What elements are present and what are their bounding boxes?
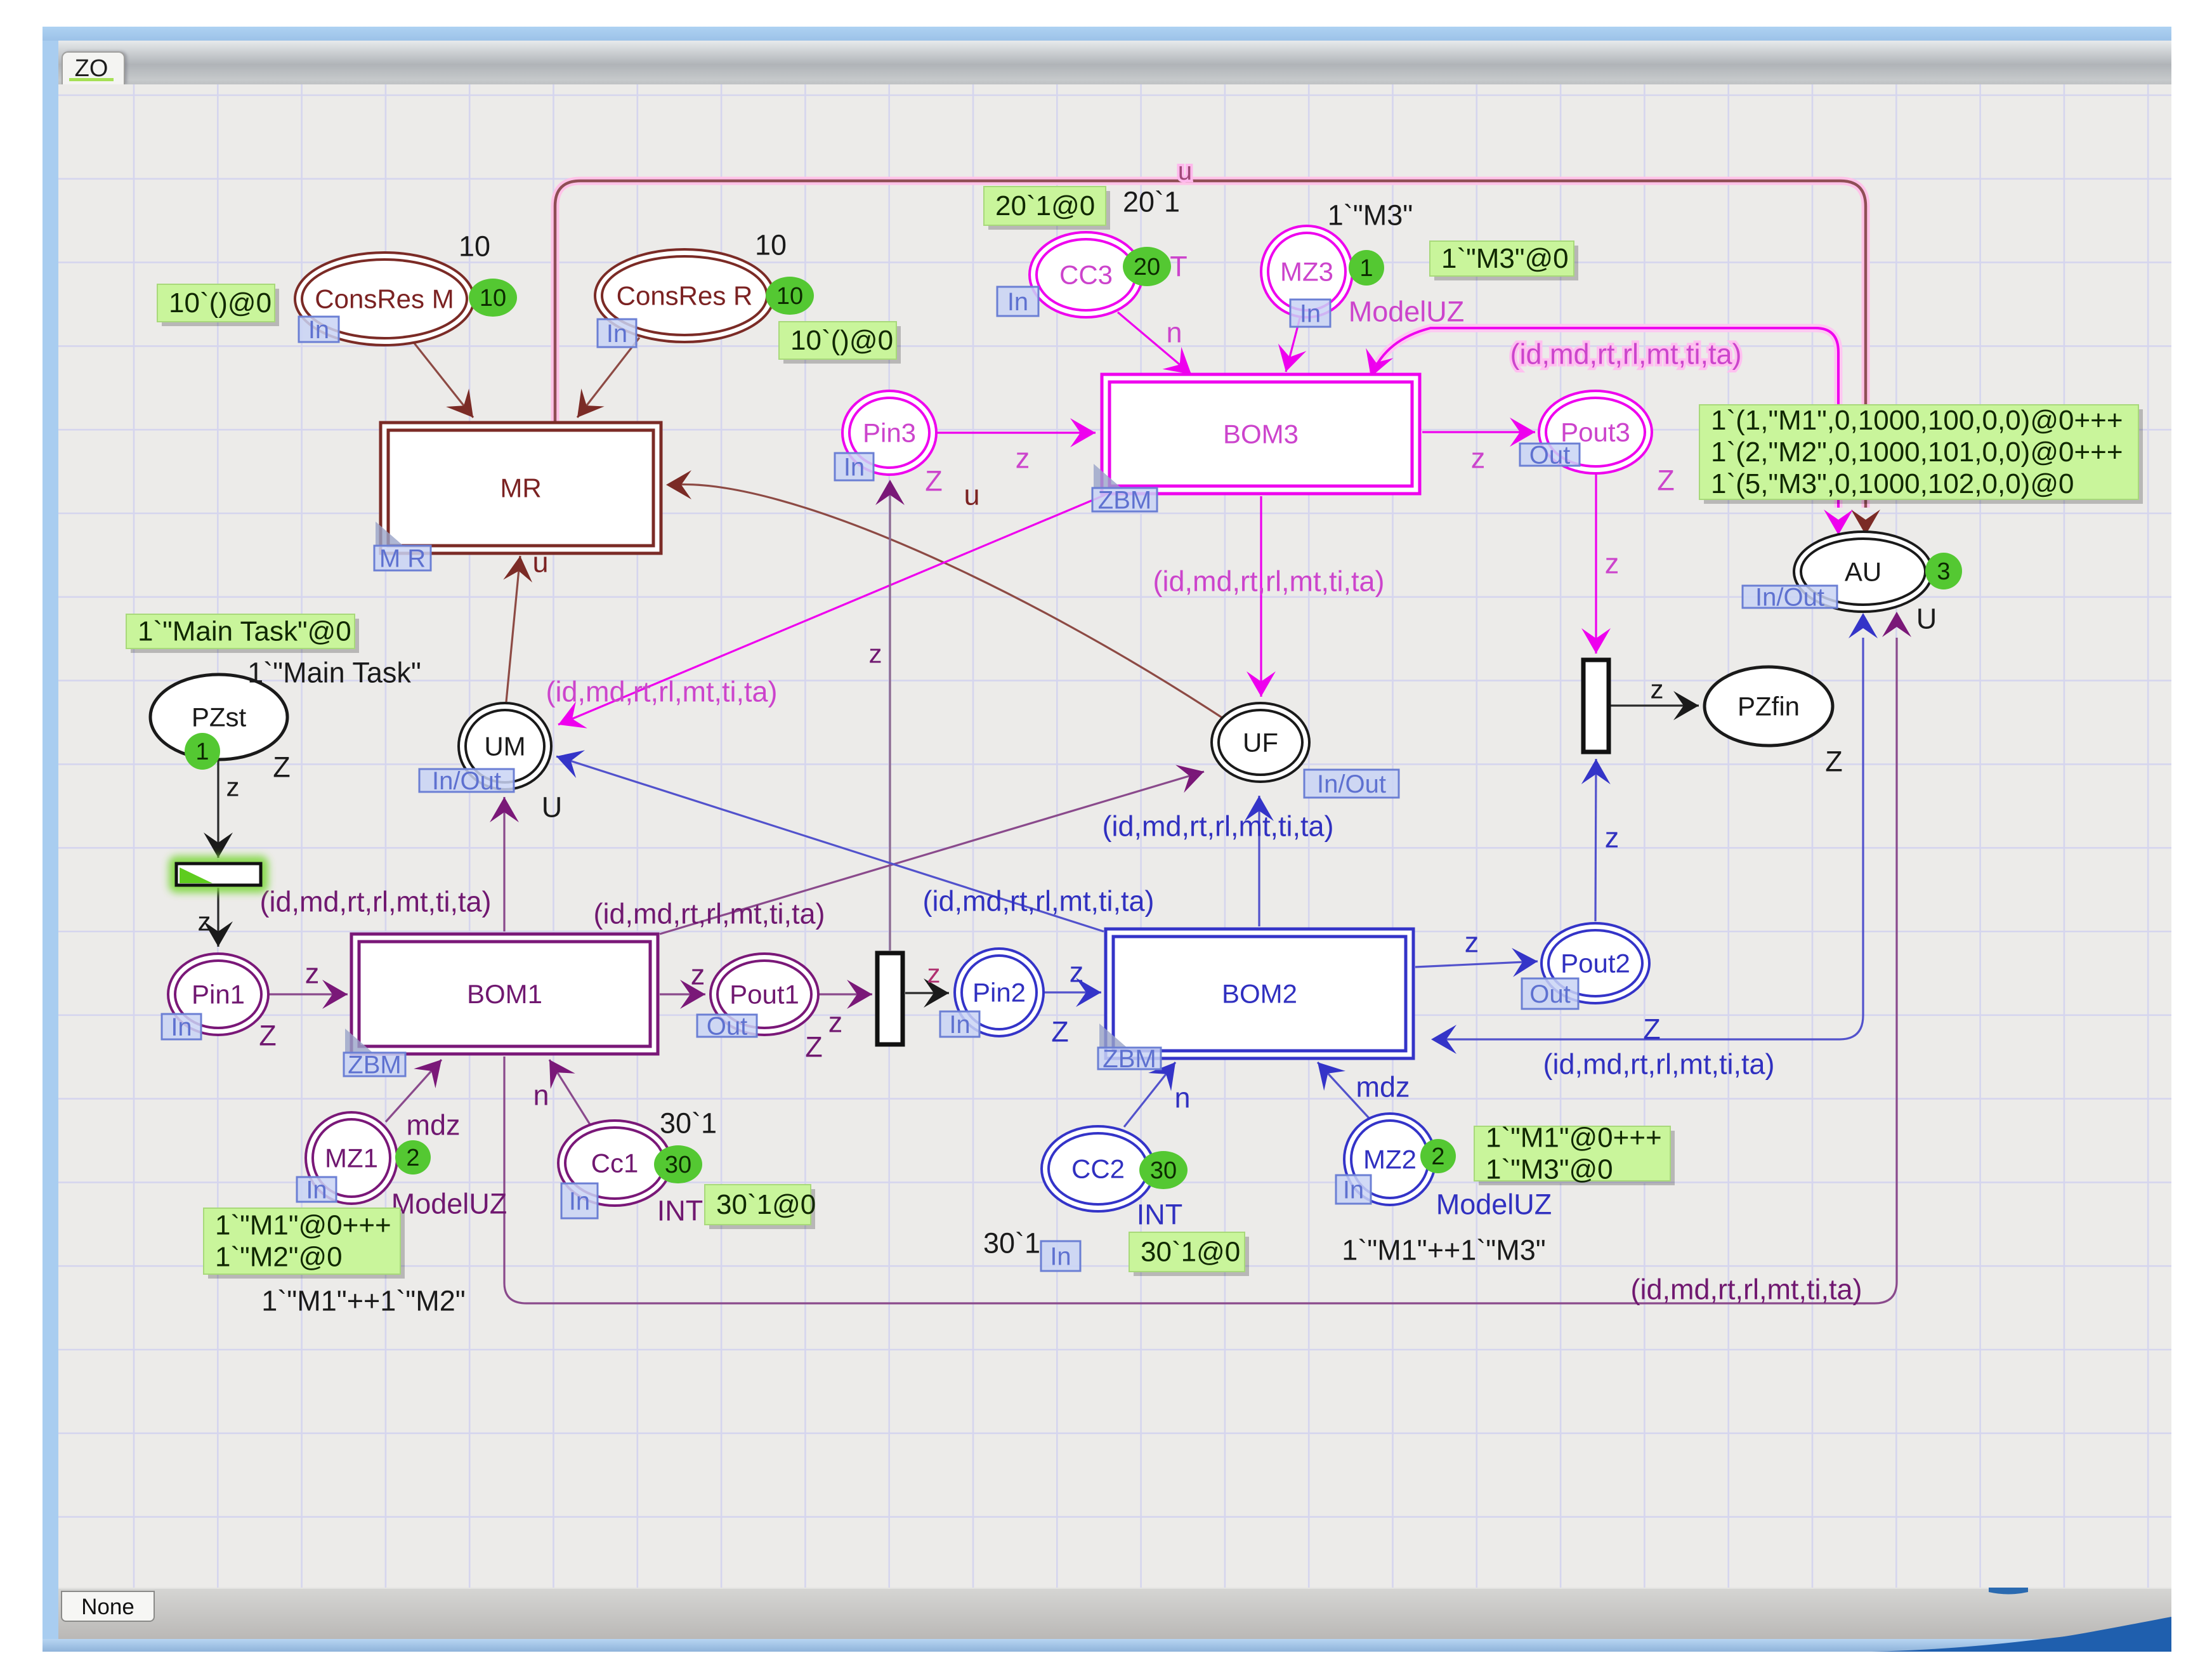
svg-text:1`"M3": 1`"M3" (1328, 199, 1413, 232)
svg-text:10`()@0: 10`()@0 (169, 287, 272, 319)
svg-text:In/Out: In/Out (432, 767, 501, 795)
svg-text:10: 10 (755, 229, 787, 261)
svg-text:30`1@0: 30`1@0 (1141, 1237, 1240, 1268)
svg-text:(id,md,rt,rl,mt,ti,ta): (id,md,rt,rl,mt,ti,ta) (546, 676, 777, 708)
svg-text:20`1@0: 20`1@0 (995, 190, 1095, 221)
svg-text:z: z (1651, 675, 1664, 704)
svg-text:1: 1 (195, 739, 209, 765)
svg-text:Pin1: Pin1 (192, 980, 245, 1010)
svg-text:1`"M1"@0+++: 1`"M1"@0+++ (215, 1210, 391, 1241)
svg-text:30: 30 (665, 1152, 691, 1178)
svg-text:1`"M1"@0+++: 1`"M1"@0+++ (1486, 1122, 1662, 1154)
svg-text:In: In (171, 1013, 192, 1041)
svg-text:Pin2: Pin2 (972, 978, 1026, 1008)
svg-text:Pout2: Pout2 (1561, 949, 1630, 978)
svg-text:In: In (1007, 288, 1028, 316)
svg-text:u: u (1178, 157, 1192, 185)
svg-text:mdz: mdz (406, 1109, 460, 1142)
svg-text:PZst: PZst (192, 702, 247, 732)
svg-text:10: 10 (459, 230, 490, 263)
svg-text:20`1: 20`1 (1123, 186, 1180, 218)
svg-text:AU: AU (1845, 557, 1882, 587)
svg-text:M R: M R (379, 545, 426, 573)
svg-text:In: In (569, 1188, 590, 1216)
svg-text:In: In (308, 316, 329, 344)
svg-text:MZ2: MZ2 (1363, 1145, 1417, 1175)
svg-text:z: z (927, 959, 941, 989)
svg-text:1`"Main Task"@0: 1`"Main Task"@0 (138, 616, 351, 647)
svg-text:z: z (869, 639, 882, 669)
svg-text:z: z (1016, 442, 1030, 475)
svg-text:z: z (828, 1006, 843, 1039)
svg-text:20: 20 (1134, 254, 1160, 280)
svg-text:UM: UM (484, 732, 525, 761)
svg-text:n: n (533, 1079, 549, 1112)
svg-text:30: 30 (1150, 1157, 1177, 1184)
svg-text:PZfin: PZfin (1738, 692, 1800, 721)
svg-text:ZBM: ZBM (1103, 1045, 1156, 1073)
svg-text:In: In (306, 1176, 327, 1204)
svg-text:2: 2 (406, 1145, 419, 1171)
svg-text:ConsRes M: ConsRes M (315, 284, 454, 314)
svg-text:Z: Z (925, 465, 943, 497)
svg-text:In/Out: In/Out (1755, 584, 1824, 612)
svg-text:(id,md,rt,rl,mt,ti,ta): (id,md,rt,rl,mt,ti,ta) (922, 885, 1154, 918)
svg-text:Z: Z (273, 751, 291, 784)
svg-text:CC2: CC2 (1071, 1154, 1125, 1184)
svg-text:1`(2,"M2",0,1000,101,0,0)@0+++: 1`(2,"M2",0,1000,101,0,0)@0+++ (1711, 437, 2123, 468)
svg-text:In: In (1343, 1176, 1364, 1204)
svg-text:In: In (1050, 1243, 1071, 1271)
svg-text:z: z (691, 959, 705, 991)
svg-text:In: In (949, 1011, 970, 1039)
svg-text:Pin3: Pin3 (863, 418, 916, 448)
svg-text:30`1@0: 30`1@0 (716, 1189, 816, 1220)
svg-text:(id,md,rt,rl,mt,ti,ta): (id,md,rt,rl,mt,ti,ta) (259, 886, 491, 918)
svg-text:BOM3: BOM3 (1223, 419, 1299, 449)
svg-text:1`"Main Task": 1`"Main Task" (247, 657, 421, 689)
svg-text:(id,md,rt,rl,mt,ti,ta): (id,md,rt,rl,mt,ti,ta) (593, 898, 825, 930)
svg-text:1`"M3"@0: 1`"M3"@0 (1486, 1154, 1613, 1185)
svg-text:z: z (1465, 926, 1479, 959)
svg-text:T: T (1170, 251, 1188, 283)
svg-text:Out: Out (1529, 442, 1570, 470)
svg-text:z: z (198, 907, 211, 937)
svg-text:10: 10 (776, 283, 803, 310)
svg-text:z: z (1605, 548, 1620, 580)
svg-text:INT: INT (657, 1195, 704, 1227)
svg-text:(id,md,rt,rl,mt,ti,ta): (id,md,rt,rl,mt,ti,ta) (1543, 1048, 1774, 1081)
svg-text:mdz: mdz (1356, 1071, 1410, 1103)
svg-text:Cc1: Cc1 (591, 1148, 639, 1178)
svg-text:Z: Z (1643, 1013, 1661, 1046)
svg-text:U: U (1916, 603, 1937, 635)
svg-text:(id,md,rt,rl,mt,ti,ta): (id,md,rt,rl,mt,ti,ta) (1510, 338, 1741, 371)
svg-text:1`"M1"++1`"M2": 1`"M1"++1`"M2" (261, 1285, 466, 1317)
svg-text:ModelUZ: ModelUZ (391, 1188, 507, 1220)
svg-text:n: n (1174, 1082, 1190, 1114)
svg-text:z: z (226, 772, 240, 802)
svg-text:u: u (964, 479, 979, 511)
svg-text:z: z (1070, 956, 1084, 989)
svg-text:z: z (305, 958, 320, 990)
svg-text:Out: Out (1529, 980, 1570, 1008)
svg-text:ModelUZ: ModelUZ (1436, 1188, 1552, 1221)
svg-text:(id,md,rt,rl,mt,ti,ta): (id,md,rt,rl,mt,ti,ta) (1630, 1273, 1862, 1306)
svg-text:In/Out: In/Out (1317, 770, 1386, 798)
svg-text:ZBM: ZBM (1098, 487, 1151, 515)
svg-text:In: In (844, 454, 865, 482)
svg-text:1`(5,"M3",0,1000,102,0,0)@0: 1`(5,"M3",0,1000,102,0,0)@0 (1711, 468, 2074, 499)
svg-text:(id,md,rt,rl,mt,ti,ta): (id,md,rt,rl,mt,ti,ta) (1102, 810, 1333, 843)
svg-text:ZBM: ZBM (348, 1051, 401, 1079)
svg-text:Z: Z (805, 1031, 823, 1063)
svg-text:Z: Z (1051, 1016, 1069, 1048)
svg-text:ModelUZ: ModelUZ (1349, 296, 1465, 328)
svg-text:INT: INT (1137, 1199, 1183, 1231)
svg-text:Z: Z (259, 1020, 277, 1052)
svg-text:1: 1 (1359, 255, 1373, 282)
svg-text:Z: Z (1657, 464, 1675, 497)
svg-text:ConsRes R: ConsRes R (617, 281, 753, 311)
svg-text:BOM1: BOM1 (467, 979, 542, 1009)
svg-text:30`1: 30`1 (660, 1107, 717, 1140)
svg-text:Pout3: Pout3 (1561, 418, 1630, 447)
svg-text:2: 2 (1431, 1143, 1444, 1170)
svg-text:MZ1: MZ1 (325, 1143, 378, 1173)
svg-text:CC3: CC3 (1059, 260, 1113, 290)
svg-text:10: 10 (480, 285, 506, 312)
svg-text:1`"M2"@0: 1`"M2"@0 (215, 1242, 343, 1273)
svg-text:z: z (1605, 822, 1620, 854)
svg-text:1`"M1"++1`"M3": 1`"M1"++1`"M3" (1342, 1234, 1546, 1267)
svg-text:(id,md,rt,rl,mt,ti,ta): (id,md,rt,rl,mt,ti,ta) (1153, 565, 1384, 598)
svg-text:1`(1,"M1",0,1000,100,0,0)@0+++: 1`(1,"M1",0,1000,100,0,0)@0+++ (1711, 405, 2123, 436)
svg-text:UF: UF (1243, 728, 1278, 758)
svg-text:10`()@0: 10`()@0 (790, 325, 893, 356)
svg-text:z: z (1471, 442, 1486, 475)
svg-text:30`1: 30`1 (983, 1227, 1040, 1260)
svg-text:In: In (606, 320, 627, 348)
svg-text:Out: Out (707, 1013, 747, 1041)
svg-text:Pout1: Pout1 (730, 980, 799, 1010)
svg-text:3: 3 (1937, 558, 1950, 585)
svg-text:Z: Z (1825, 746, 1843, 778)
svg-text:U: U (542, 791, 563, 824)
svg-text:In: In (1300, 300, 1321, 328)
svg-text:BOM2: BOM2 (1222, 979, 1297, 1009)
svg-text:1`"M3"@0: 1`"M3"@0 (1441, 243, 1569, 274)
svg-text:MZ3: MZ3 (1280, 257, 1333, 287)
svg-text:MR: MR (500, 473, 541, 503)
svg-text:n: n (1166, 317, 1182, 349)
